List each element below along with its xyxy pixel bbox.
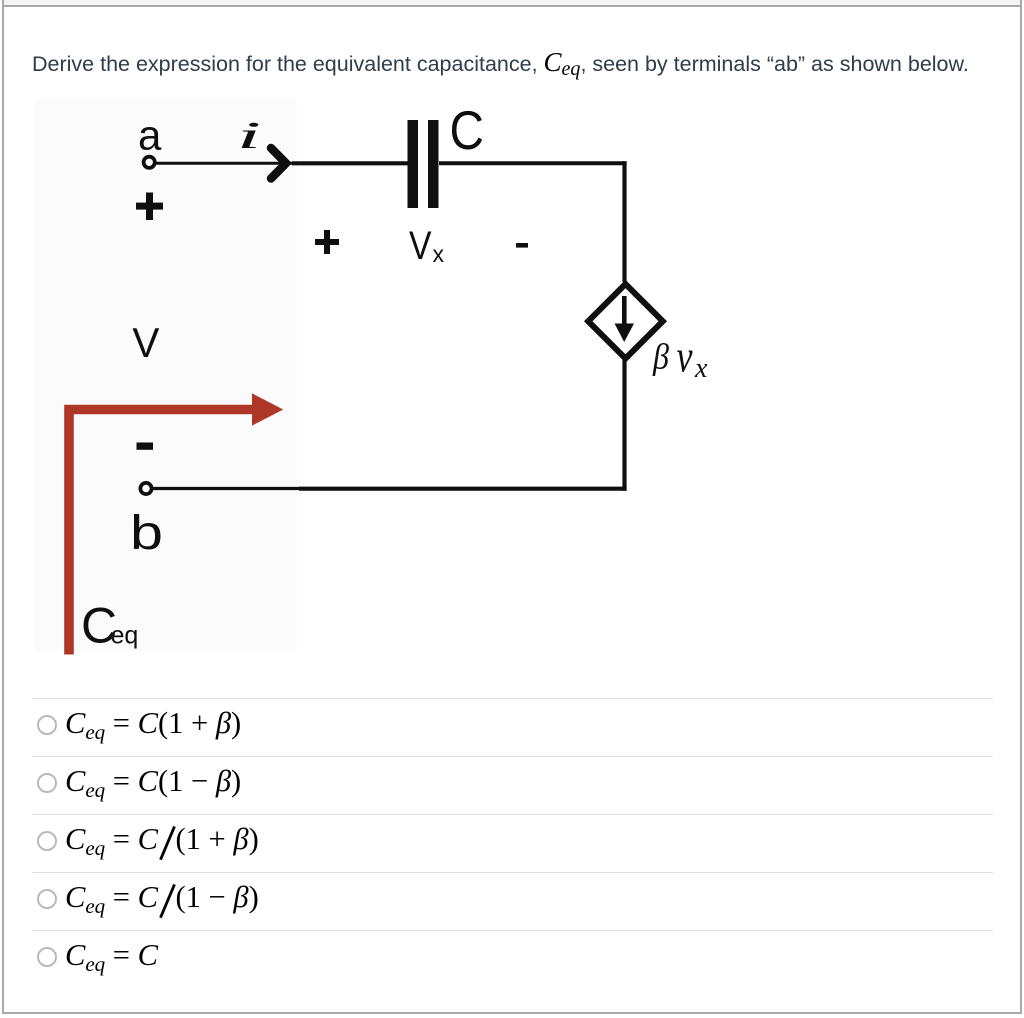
svg-text:β: β [652, 337, 669, 377]
svg-text:C: C [450, 99, 485, 161]
svg-text:V: V [409, 224, 432, 268]
svg-text:x: x [694, 353, 708, 384]
svg-text:v: v [677, 331, 693, 382]
svg-text:x: x [433, 241, 445, 267]
svg-text:i: i [237, 114, 261, 156]
svg-text:V: V [132, 319, 159, 366]
svg-text:a: a [138, 112, 162, 159]
svg-text:eq: eq [111, 622, 139, 650]
svg-text:b: b [130, 506, 163, 560]
